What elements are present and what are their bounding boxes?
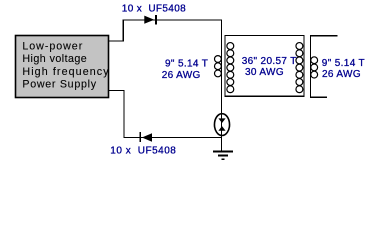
svg-text:9" 5.14 T: 9" 5.14 T xyxy=(322,58,365,69)
svg-text:Low-power: Low-power xyxy=(22,40,83,52)
svg-text:Power Supply: Power Supply xyxy=(22,79,96,91)
wire from PS1 bottom output down to bottom rail xyxy=(109,91,223,138)
secondary winding L2 left column xyxy=(227,43,234,93)
svg-text:High frequency: High frequency xyxy=(22,66,109,78)
svg-text:26 AWG: 26 AWG xyxy=(162,70,201,81)
svg-text:36" 20.57 T: 36" 20.57 T xyxy=(242,56,297,67)
secondary winding L2 right column xyxy=(296,43,303,93)
diode D2 (bottom, 10 x UF5408) xyxy=(140,132,151,142)
primary winding vertical wire / node xyxy=(221,19,223,151)
transformer core box (secondary former) xyxy=(225,35,304,96)
tertiary winding L3 (9" 5.14 T, 26 AWG) xyxy=(311,57,318,78)
current probe / source symbol xyxy=(214,114,229,136)
svg-text:30 AWG: 30 AWG xyxy=(245,67,284,78)
power supply block PS1 xyxy=(16,36,110,98)
svg-text:10 x UF5408: 10 x UF5408 xyxy=(110,145,176,156)
tertiary winding L3 wire with open stubs xyxy=(311,36,338,98)
wire from PS1 top output to top rail xyxy=(109,20,223,41)
svg-text:High voltage: High voltage xyxy=(22,53,87,65)
svg-text:10 x UF5408: 10 x UF5408 xyxy=(122,4,186,15)
diode D1 (top, 10 x UF5408) xyxy=(145,15,156,25)
svg-text:9" 5.14 T: 9" 5.14 T xyxy=(165,59,208,70)
primary winding L1 (9" 5.14 T, 26 AWG) xyxy=(215,56,222,77)
ground symbol xyxy=(213,152,233,160)
svg-text:26 AWG: 26 AWG xyxy=(322,69,361,80)
